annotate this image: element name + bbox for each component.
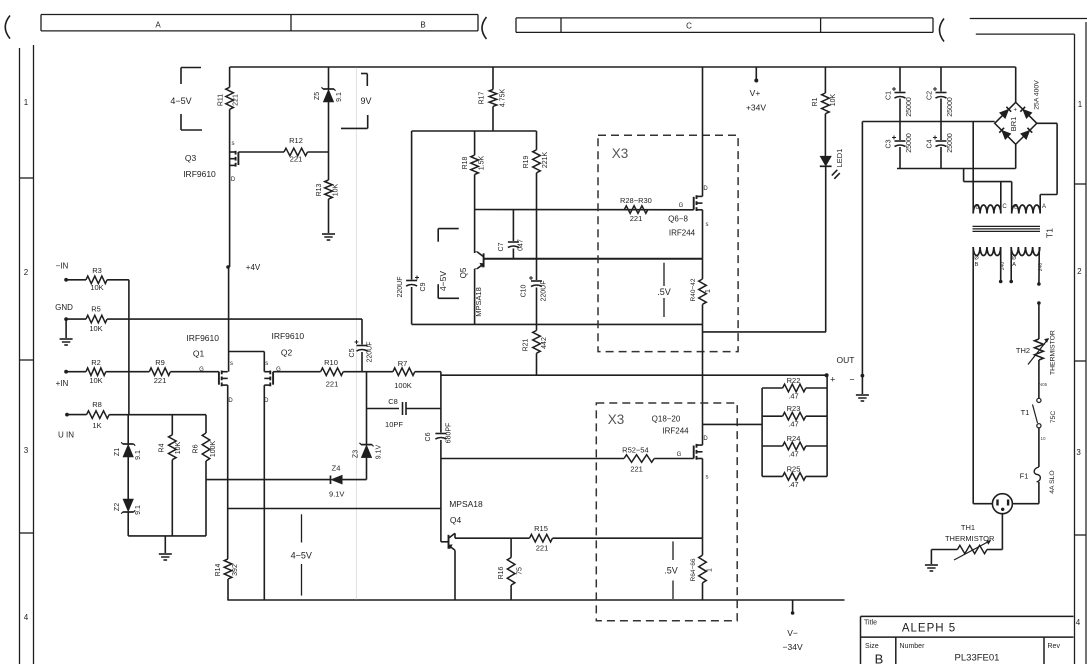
svg-text:Q5: Q5 [459, 267, 468, 278]
svg-text:A: A [155, 21, 161, 30]
svg-text:Z2: Z2 [114, 503, 121, 511]
svg-text:2: 2 [24, 268, 29, 277]
svg-text:221: 221 [326, 380, 339, 389]
svg-text:A: A [1012, 262, 1016, 268]
svg-text:25000: 25000 [906, 97, 913, 117]
svg-text:B: B [975, 262, 979, 268]
svg-text:9.1V: 9.1V [376, 444, 383, 459]
svg-text:Z4: Z4 [332, 464, 341, 473]
svg-text:V+: V+ [750, 88, 761, 98]
svg-text:LED1: LED1 [835, 149, 844, 168]
svg-text:1: 1 [707, 568, 714, 572]
svg-text:4: 4 [1076, 618, 1081, 627]
svg-text:s: s [706, 475, 709, 481]
svg-text:1: 1 [705, 289, 712, 293]
svg-text:221: 221 [630, 214, 643, 223]
svg-text:B: B [875, 652, 884, 664]
svg-text:T1: T1 [1021, 408, 1030, 417]
svg-text:OUT: OUT [837, 355, 855, 365]
svg-text:10K: 10K [90, 283, 103, 292]
svg-text:C: C [686, 22, 692, 31]
svg-text:R2: R2 [91, 358, 101, 367]
svg-text:R24: R24 [787, 434, 801, 443]
svg-text:C: C [1002, 204, 1007, 210]
svg-text:Size: Size [865, 643, 879, 650]
svg-text:X3: X3 [612, 146, 629, 161]
svg-text:R22: R22 [787, 376, 801, 385]
svg-text:221: 221 [630, 465, 643, 474]
svg-text:25000: 25000 [947, 133, 954, 153]
svg-text:TH1: TH1 [961, 523, 975, 532]
svg-text:9.1: 9.1 [336, 92, 343, 102]
svg-text:G: G [199, 367, 204, 373]
svg-text:R28−R30: R28−R30 [620, 196, 652, 205]
svg-text:9.1V: 9.1V [329, 490, 344, 499]
svg-text:10K: 10K [89, 324, 102, 333]
svg-text:X3: X3 [608, 412, 625, 427]
svg-text:R1: R1 [812, 97, 819, 106]
svg-text:3: 3 [1076, 448, 1081, 457]
svg-text:U IN: U IN [58, 431, 74, 440]
svg-text:9.1: 9.1 [135, 450, 142, 460]
svg-text:25000: 25000 [947, 97, 954, 117]
svg-text:Ø: Ø [1012, 256, 1017, 262]
svg-text:C1: C1 [886, 91, 893, 100]
svg-text:442: 442 [541, 337, 548, 349]
svg-text:221: 221 [290, 155, 303, 164]
svg-text:1: 1 [24, 98, 29, 107]
svg-text:IRF244: IRF244 [662, 427, 689, 436]
svg-text:T1: T1 [1045, 228, 1055, 238]
svg-text:Z3: Z3 [353, 450, 360, 458]
svg-text:4−5V: 4−5V [291, 551, 312, 561]
svg-text:R4: R4 [159, 443, 166, 452]
svg-text:BR1: BR1 [1009, 117, 1018, 132]
svg-text:2: 2 [1077, 267, 1082, 276]
svg-text:s: s [232, 141, 235, 147]
svg-text:ALEPH 5: ALEPH 5 [902, 623, 956, 635]
svg-text:4−5V: 4−5V [438, 271, 448, 291]
svg-text:R16: R16 [498, 566, 505, 579]
svg-text:220UF: 220UF [367, 341, 374, 362]
svg-text:C9: C9 [420, 282, 427, 291]
svg-text:R10: R10 [324, 358, 338, 367]
svg-text:R52−54: R52−54 [622, 446, 648, 455]
svg-text:THERMISTOR: THERMISTOR [945, 534, 995, 543]
svg-text:75: 75 [517, 567, 524, 575]
svg-text:220UF: 220UF [397, 276, 404, 297]
svg-text:221: 221 [233, 94, 240, 106]
svg-text:Q1: Q1 [193, 349, 205, 359]
svg-text:F1: F1 [1020, 472, 1029, 481]
svg-text:R13: R13 [316, 183, 323, 196]
svg-text:IRF244: IRF244 [669, 229, 696, 238]
svg-text:−IN: −IN [56, 262, 69, 271]
svg-text:+IN: +IN [56, 379, 69, 388]
svg-text:R18: R18 [462, 156, 469, 169]
svg-text:D: D [231, 177, 236, 183]
svg-text:Ø: Ø [974, 256, 979, 262]
svg-text:G: G [679, 203, 684, 209]
svg-text:IRF9610: IRF9610 [186, 333, 219, 343]
svg-text:1.5K: 1.5K [479, 155, 486, 170]
svg-text:s: s [230, 361, 233, 367]
svg-text:D: D [703, 186, 708, 192]
svg-text:9V: 9V [360, 96, 371, 106]
svg-text:R8: R8 [92, 400, 102, 409]
svg-text:C7: C7 [498, 242, 505, 251]
svg-text:GND: GND [55, 303, 73, 312]
svg-text:Q3: Q3 [185, 153, 197, 163]
svg-text:047: 047 [518, 239, 525, 251]
svg-text:.47: .47 [788, 450, 798, 459]
svg-text:R12: R12 [289, 136, 303, 145]
svg-text:3: 3 [24, 446, 29, 455]
svg-text:s: s [265, 361, 268, 367]
svg-text:R25: R25 [787, 464, 801, 473]
svg-text:.47: .47 [788, 392, 798, 401]
svg-text:G: G [677, 452, 682, 458]
svg-text:75C: 75C [1050, 411, 1057, 424]
svg-text:4−5V: 4−5V [170, 96, 191, 106]
svg-text:10: 10 [1040, 436, 1046, 441]
svg-text:221: 221 [536, 544, 549, 553]
svg-text:10PF: 10PF [385, 420, 403, 429]
svg-text:B: B [420, 21, 425, 30]
svg-text:R7: R7 [398, 359, 408, 368]
svg-text:+: + [1014, 108, 1018, 114]
svg-text:Rev: Rev [1048, 643, 1061, 650]
svg-text:PL33FE01: PL33FE01 [955, 653, 1000, 664]
svg-text:Q18−20: Q18−20 [652, 415, 681, 424]
svg-text:C8: C8 [388, 397, 398, 406]
svg-text:100K: 100K [210, 441, 217, 458]
svg-text:Z1: Z1 [114, 448, 121, 456]
svg-text:1K: 1K [92, 421, 101, 430]
svg-text:240: 240 [1000, 262, 1006, 271]
svg-text:R11: R11 [218, 94, 225, 106]
svg-text:240: 240 [1038, 263, 1044, 272]
svg-text:221: 221 [154, 376, 167, 385]
svg-text:Q4: Q4 [450, 515, 462, 525]
svg-text:R40−42: R40−42 [690, 278, 697, 301]
svg-text:Q6−8: Q6−8 [668, 215, 688, 224]
svg-text:R17: R17 [479, 91, 486, 104]
svg-text:1: 1 [1078, 100, 1083, 109]
svg-text:R5: R5 [91, 305, 101, 314]
svg-text:MPSA18: MPSA18 [474, 287, 483, 317]
svg-text:C5: C5 [349, 348, 356, 357]
svg-text:25000: 25000 [906, 133, 913, 153]
svg-text:THERMISTOR: THERMISTOR [1050, 330, 1057, 375]
svg-text:R15: R15 [534, 524, 548, 533]
svg-text:4: 4 [24, 613, 29, 622]
svg-text:−: − [849, 375, 854, 385]
svg-text:+4V: +4V [246, 263, 261, 272]
svg-text:D: D [703, 436, 708, 442]
svg-text:IRF9610: IRF9610 [271, 331, 304, 341]
svg-text:Z5: Z5 [314, 92, 321, 100]
svg-text:4.75K: 4.75K [500, 89, 507, 108]
svg-text:A: A [1042, 204, 1046, 210]
svg-text:R9: R9 [155, 358, 165, 367]
svg-text:R19: R19 [523, 155, 530, 168]
svg-text:10K: 10K [830, 93, 837, 106]
svg-text:.47: .47 [788, 420, 798, 429]
svg-text:221K: 221K [542, 152, 549, 169]
svg-text:R14: R14 [215, 563, 222, 576]
svg-text:IRF9610: IRF9610 [183, 169, 216, 179]
svg-text:MPSA18: MPSA18 [449, 499, 483, 509]
svg-text:C3: C3 [886, 139, 893, 148]
svg-text:392: 392 [232, 564, 239, 576]
svg-text:V−: V− [787, 628, 798, 638]
svg-text:C6: C6 [425, 432, 432, 441]
svg-text:10K: 10K [175, 441, 182, 454]
svg-text:Q2: Q2 [281, 348, 293, 358]
svg-text:+: + [830, 375, 835, 385]
svg-text:4A SLO: 4A SLO [1049, 470, 1056, 493]
svg-text:220UF: 220UF [541, 280, 548, 301]
svg-text:100K: 100K [394, 381, 412, 390]
svg-text:10K: 10K [333, 183, 340, 196]
svg-text:Number: Number [900, 643, 926, 650]
svg-text:.5V: .5V [664, 566, 678, 576]
svg-text:C2: C2 [927, 91, 934, 100]
svg-text:−34V: −34V [783, 642, 803, 652]
svg-text:C10: C10 [521, 284, 528, 297]
svg-text:s: s [706, 222, 709, 228]
svg-text:D: D [228, 398, 233, 404]
svg-text:25A 400V: 25A 400V [1034, 80, 1041, 110]
svg-text:680PF: 680PF [446, 423, 453, 444]
svg-text:C4: C4 [927, 139, 934, 148]
svg-text:R23: R23 [787, 404, 801, 413]
svg-text:R3: R3 [92, 266, 102, 275]
svg-text:+34V: +34V [746, 103, 766, 113]
svg-text:R21: R21 [523, 338, 530, 351]
svg-text:10K: 10K [89, 376, 102, 385]
svg-text:.5V: .5V [657, 287, 671, 297]
svg-text:.47: .47 [788, 480, 798, 489]
svg-text:R64−66: R64−66 [690, 558, 697, 581]
svg-text:TH2: TH2 [1016, 346, 1030, 355]
svg-text:R6: R6 [193, 444, 200, 453]
svg-text:N05: N05 [1039, 382, 1048, 387]
svg-text:Title: Title [864, 620, 877, 627]
svg-text:9.1: 9.1 [135, 505, 142, 515]
